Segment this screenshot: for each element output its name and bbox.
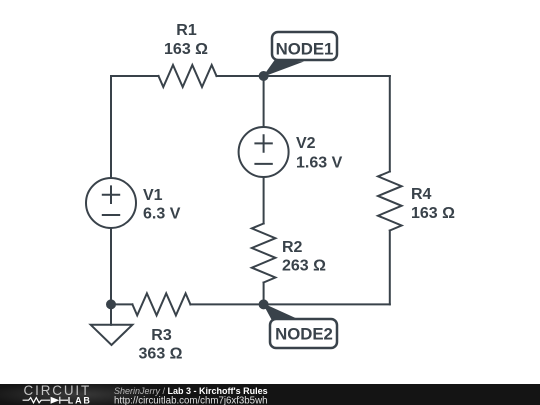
node NODE2 callout tail — [263, 303, 302, 321]
wire top-left horizontal (left node to R1) — [111, 75, 159, 77]
resistor R3 — [132, 293, 190, 315]
svg-text:6.3 V: 6.3 V — [143, 206, 181, 223]
label R1 value — [164, 22, 208, 58]
svg-text:R4: R4 — [411, 186, 432, 203]
svg-text:LAB: LAB — [68, 395, 92, 405]
svg-text:263 Ω: 263 Ω — [282, 258, 326, 275]
svg-text:V1: V1 — [143, 187, 163, 204]
resistor R1 — [159, 65, 217, 87]
wire R1 to NODE1 and top-right corner — [217, 75, 390, 77]
label R3 value — [139, 327, 183, 363]
svg-text:NODE1: NODE1 — [276, 40, 334, 59]
svg-text:http://circuitlab.com/chm7j6xf: http://circuitlab.com/chm7j6xf3b5wh — [114, 395, 267, 405]
wire right vertical upper (top corner to R4) — [389, 76, 391, 172]
label V2 value — [296, 135, 343, 172]
wire R2 to NODE2 — [263, 283, 265, 305]
svg-text:1.63 V: 1.63 V — [296, 155, 343, 172]
node NODE2 label box — [270, 319, 337, 348]
node NODE1 callout tail — [263, 60, 305, 78]
svg-text:V2: V2 — [296, 135, 316, 152]
footer bar — [0, 384, 540, 405]
wire V2 to R2 — [263, 177, 265, 224]
wire left vertical lower (V1 to bottom node) — [110, 228, 112, 304]
label V1 value — [143, 187, 181, 223]
ground stem wire — [110, 304, 112, 324]
junction dot ground node — [106, 299, 116, 309]
svg-text:R3: R3 — [151, 327, 172, 344]
svg-text:R1: R1 — [176, 22, 197, 39]
wire bottom-left (ground node to R3) — [111, 303, 132, 305]
wire bottom horizontal (R3 to NODE2 to right corner) — [190, 303, 389, 305]
footer title text — [114, 386, 268, 405]
wire center vertical (NODE1 down to V2) — [263, 76, 265, 127]
svg-text:R2: R2 — [282, 239, 303, 256]
svg-text:363 Ω: 363 Ω — [139, 346, 183, 363]
label R4 value — [411, 186, 455, 222]
junction dot NODE1 — [259, 71, 269, 81]
svg-text:163 Ω: 163 Ω — [411, 205, 455, 222]
wire right vertical lower (R4 to bottom corner) — [389, 231, 391, 305]
junction dot NODE2 — [259, 299, 269, 309]
resistor R4 — [378, 172, 402, 231]
svg-text:163 Ω: 163 Ω — [164, 41, 208, 58]
node NODE1 label box — [272, 32, 337, 60]
CircuitLab logo — [23, 383, 92, 405]
svg-text:SherinJerry / Lab 3 - Kirchoff: SherinJerry / Lab 3 - Kirchoff's Rules — [114, 386, 268, 396]
svg-text:NODE2: NODE2 — [275, 325, 333, 344]
voltage source V1 — [86, 178, 136, 228]
label R2 value — [282, 239, 326, 275]
resistor R2 — [252, 224, 276, 283]
voltage source V2 — [239, 127, 289, 177]
wire left vertical upper (top wire down to V1) — [110, 76, 112, 178]
ground — [91, 325, 133, 345]
